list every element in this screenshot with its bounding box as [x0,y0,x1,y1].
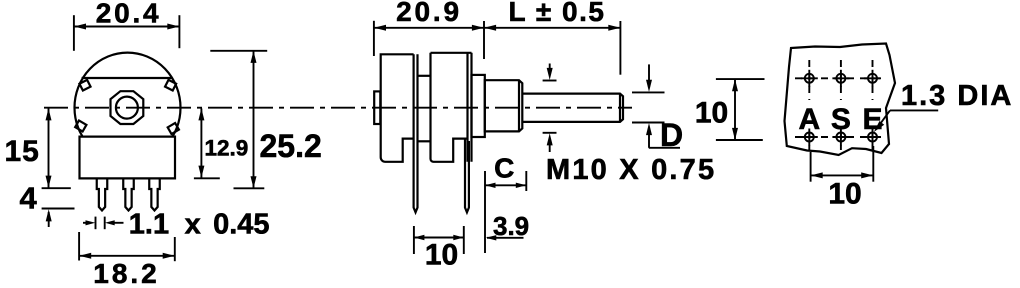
svg-text:10: 10 [425,239,458,272]
svg-text:20.4: 20.4 [96,0,162,28]
dimension 12.9 lower extension line [194,177,220,179]
dimension 25.2 extension lines [210,51,267,189]
svg-text:1.1: 1.1 [129,208,169,240]
svg-text:A: A [798,103,820,136]
svg-text:M10 X 0.75: M10 X 0.75 [546,154,716,186]
side view front plate [431,53,472,162]
side view shaft [522,94,623,122]
side view rear stub [374,91,380,124]
dimension 1.3 DIA leader arrow [874,110,938,132]
svg-text:18.2: 18.2 [93,258,160,288]
dimension 3.9 arrow line [486,235,524,240]
dimension 20.9 extension lines [374,21,484,59]
dimension text 18.2 [93,258,160,288]
side view front plate inner wall [466,53,468,162]
svg-text:E: E [862,103,882,136]
svg-text:C: C [494,152,514,183]
dimension text L ± 0.5 [509,0,606,27]
front view pin 2 [123,178,134,210]
bushing diameter bottom arrow [547,133,553,152]
pad label E [862,103,882,136]
dimension text 15 [5,135,40,168]
dimension 10 vertical extension lines [716,79,765,140]
side view threaded bushing [485,80,523,131]
dimension 20.4 extension lines [74,15,179,51]
shaft diameter extension bars [632,92,665,122]
dimension C extension lines [485,171,526,253]
dimension 10 bottom line with arrows [811,172,874,178]
solder pad top row [801,70,881,87]
front view notch tab upper-right [165,80,176,91]
pad row dashed line bottom [795,136,886,138]
svg-text:25.2: 25.2 [260,128,322,164]
dimension text D [660,117,683,153]
dimension text 12.9 [205,136,249,161]
dimension 18.2 extension lines [79,232,175,261]
front view center inner circle [116,97,138,119]
dimension 12.9 line with arrows [198,108,204,177]
side view rear plate [381,54,414,162]
dimension text 20.9 [396,0,462,27]
dimension 25.2 line with arrows [251,51,257,189]
front view pin 3 [149,178,160,210]
pad label A [798,103,820,136]
front view body circle [75,53,181,137]
front view lower body rectangle [80,137,176,179]
solder pad bottom row [801,129,881,146]
dimension text 1.1 x 0.45 [129,208,270,240]
svg-text:D: D [660,117,683,153]
front view upper chord line [82,77,173,79]
dimension text 10 vertical [695,96,728,129]
svg-text:15: 15 [5,135,40,168]
dimension 20.4 line with arrows [74,24,179,30]
svg-text:1.3 DIA: 1.3 DIA [901,80,1013,112]
centerline main horizontal axis [44,107,632,109]
svg-text:10: 10 [828,178,861,211]
dimension L±0.5 extension line right [619,21,621,75]
side view mounting flange [472,75,485,137]
svg-text:3.9: 3.9 [493,211,529,241]
dimension text C [494,152,514,183]
dimension 1.1 right arrow [105,220,124,225]
bushing diameter top arrow [547,64,553,81]
side view rear pin [414,54,418,212]
side view front pin [465,139,469,213]
dimension text 10 bottom [828,178,861,211]
dimension 18.2 line with arrows [79,253,175,259]
dimension text 3.9 [493,211,529,241]
front view notch tab lower-right [168,123,179,134]
front view center boss octagon [111,91,144,124]
svg-text:S: S [831,103,851,136]
dimension L±0.5 line with arrows [484,25,620,31]
dimension 4 lower extension line [42,208,75,210]
pad column dashed line E [872,60,874,150]
svg-text:0.45: 0.45 [213,208,269,240]
dimension 15 line with arrows [46,108,52,187]
dimension text M10 X 0.75 [546,154,716,186]
front view pin 1 [97,178,108,210]
front view notch tab upper-left [79,80,90,91]
svg-text:L ± 0.5: L ± 0.5 [509,0,606,27]
svg-text:4: 4 [20,181,38,216]
pad column dashed line A [808,60,810,150]
dimension 4 outside arrow below [46,209,52,227]
dimension text 4 [20,181,38,216]
front view notch tab lower-left [75,121,86,132]
dimension C line with arrows [485,183,526,188]
dimension 10 vertical line with arrows [732,79,738,140]
dimension 15 lower extension line [42,187,71,189]
pad column dashed line S [840,60,842,150]
dimension 1.1 tick marks at pin [96,217,105,230]
dimension 20.9 line with arrows [374,25,484,31]
shaft diameter bottom arrow with elbow to D [646,123,680,148]
dimension text 25.2 [260,128,322,164]
svg-text:x: x [185,208,201,240]
rear pad view outline blob [785,44,896,156]
dimension 10 side view line with arrows [414,235,464,240]
dimension 1.1 left arrow [83,220,95,225]
bushing diameter extension bars [543,81,557,133]
svg-text:12.9: 12.9 [205,136,249,161]
shaft diameter top arrow [646,64,652,92]
svg-text:20.9: 20.9 [396,0,462,27]
side view hub between plates [418,76,431,142]
dimension text 20.4 [96,0,162,28]
dimension text 10 side view [425,239,458,272]
dimension 10 side view extension lines [414,226,464,254]
svg-text:10: 10 [695,96,728,129]
side view front plate outer wall [470,53,472,162]
dimension 10 bottom extension lines [811,146,874,182]
pad row dashed line top [795,77,886,79]
dimension text 1.3 DIA [901,80,1013,112]
pad label S [831,103,851,136]
